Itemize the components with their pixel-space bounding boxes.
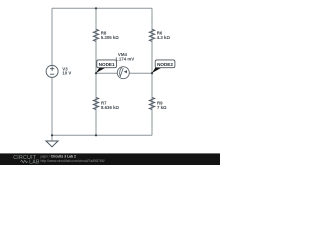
svg-text:LAB: LAB — [29, 159, 40, 165]
wire left vertical (top half) — [51, 8, 53, 65]
ground — [46, 141, 58, 147]
wire right vertical branch — [151, 8, 153, 135]
svg-text:4.3 kΩ: 4.3 kΩ — [157, 35, 171, 40]
junction top middle — [95, 7, 97, 9]
svg-text:1.174 mV: 1.174 mV — [115, 56, 134, 61]
resistor R7 — [93, 97, 98, 109]
resistor R9 — [149, 97, 154, 109]
voltmeter VM4 — [117, 67, 129, 79]
svg-text:10 V: 10 V — [62, 70, 71, 75]
resistor R8 — [93, 29, 98, 41]
wire left vertical (bottom half) — [51, 77, 53, 141]
resistor R6 — [149, 29, 154, 41]
junction bottom left — [51, 134, 53, 136]
wire voltmeter horizontal — [96, 72, 152, 74]
label R6 name and value 4.3 kOhm — [157, 31, 171, 40]
footer bar — [0, 153, 220, 165]
label V3 name and value 10 V — [62, 66, 71, 75]
wire middle vertical branch — [95, 8, 97, 135]
junction bottom middle — [95, 134, 97, 136]
node NODE2 flag — [152, 60, 175, 73]
svg-text:NODE2: NODE2 — [157, 62, 173, 67]
junction voltmeter right — [151, 72, 153, 74]
label R8 name and value 5.305 kOhm — [101, 31, 119, 40]
voltage source V3 — [46, 65, 58, 77]
wire top horizontal — [52, 7, 152, 9]
label R7 name and value 8.636 kOhm — [101, 101, 119, 110]
svg-text:http://www.circuitlab.com/circ: http://www.circuitlab.com/circuit/7a8987… — [41, 159, 105, 163]
svg-text:5.305 kΩ: 5.305 kΩ — [101, 35, 119, 40]
footer logo CircuitLab — [13, 155, 40, 165]
svg-text:7 kΩ: 7 kΩ — [157, 105, 167, 110]
svg-text:NODE1: NODE1 — [99, 62, 115, 67]
node NODE1 flag — [96, 60, 117, 73]
label R9 name and value 7 kOhm — [157, 101, 167, 110]
label VM4 name and reading 1.174 mV — [115, 52, 134, 61]
wire bottom horizontal — [52, 134, 152, 136]
junction voltmeter left — [95, 72, 97, 74]
svg-text:8.636 kΩ: 8.636 kΩ — [101, 105, 119, 110]
